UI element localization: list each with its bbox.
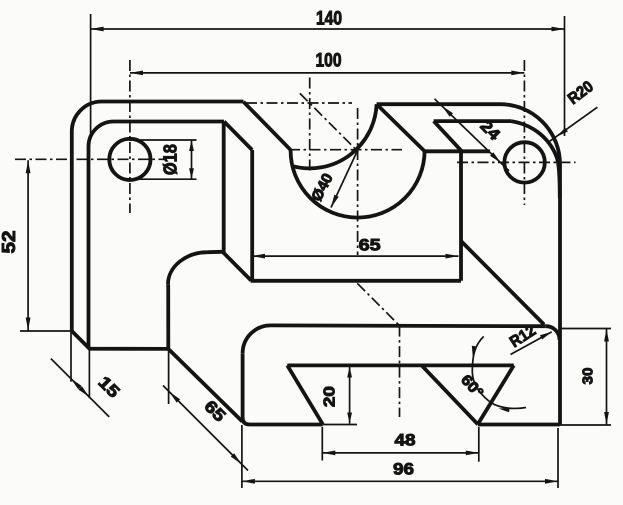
svg-text:140: 140	[316, 9, 342, 30]
svg-text:15: 15	[94, 373, 123, 402]
svg-text:48: 48	[395, 431, 416, 450]
svg-text:20: 20	[321, 386, 338, 407]
svg-text:R20: R20	[565, 78, 597, 108]
svg-text:Ø18: Ø18	[161, 144, 181, 175]
svg-text:52: 52	[0, 231, 19, 254]
svg-text:65: 65	[200, 397, 229, 426]
svg-text:65: 65	[359, 236, 381, 255]
svg-text:60°: 60°	[457, 372, 486, 402]
svg-text:Ø40: Ø40	[308, 171, 336, 205]
svg-text:96: 96	[393, 460, 414, 479]
svg-text:100: 100	[316, 51, 342, 72]
svg-text:30: 30	[580, 368, 597, 385]
